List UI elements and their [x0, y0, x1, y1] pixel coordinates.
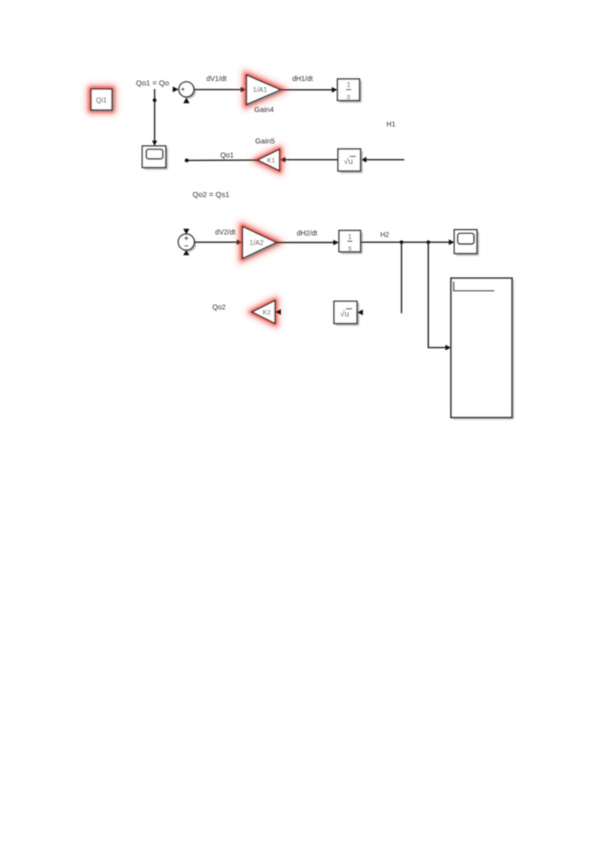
label dH1/dt: [292, 76, 313, 83]
block Qi1 (highlighted source block): [91, 89, 114, 112]
scope Scope2: [454, 230, 478, 256]
svg-text:Qo2 = Qs1: Qo2 = Qs1: [193, 190, 230, 199]
svg-text:1/A1: 1/A1: [253, 87, 268, 94]
scope Scope1: [142, 146, 167, 169]
wire Gain5 output to open end: [185, 159, 258, 163]
wire branch from junction 2 down and into tank: [428, 242, 451, 350]
gain K2 (highlighted, points left): [252, 301, 281, 324]
sum block Sum1: [173, 82, 196, 103]
svg-text:Qo1 = Qo: Qo1 = Qo: [136, 79, 169, 88]
label Gain4: [254, 105, 274, 114]
wire 1/A2 to Integrator2: [277, 240, 339, 246]
integrator block 1/s (second tank): [339, 231, 362, 254]
wire from node down to Scope1: [152, 89, 157, 146]
label Qo2 = Qs1: [193, 190, 230, 199]
wire Sum2 to Gain 1/A2: [194, 239, 242, 245]
svg-text:K1: K1: [267, 158, 275, 165]
node junction 1 on H2 wire: [400, 240, 404, 244]
svg-text:√u: √u: [340, 309, 350, 319]
sqrt block Sqrt1: [338, 149, 362, 173]
svg-text:Qo2: Qo2: [212, 304, 225, 311]
sqrt block Sqrt2: [334, 301, 363, 325]
label H1: [387, 121, 396, 128]
svg-text:s: s: [347, 92, 351, 101]
wire Integrator2 to Scope2: [361, 239, 455, 245]
label Qo2 (signal): [212, 304, 225, 311]
svg-text:Gain5: Gain5: [255, 137, 275, 146]
sum block Sum2: [178, 229, 196, 255]
svg-text:dH2/dt: dH2/dt: [297, 230, 318, 237]
integrator block 1/s (first tank): [338, 79, 362, 102]
label dH2/dt: [297, 230, 318, 237]
svg-text:1: 1: [347, 80, 351, 89]
svg-text:Qo1: Qo1: [220, 150, 234, 159]
wire stub into Sqrt1 from right: [361, 157, 404, 163]
label H2: [380, 232, 389, 239]
label Qo1 = Qo: [136, 79, 169, 88]
label dV1/dt: [206, 76, 226, 83]
tank block (animation rectangle): [451, 278, 514, 419]
node junction on Qo1 wire: [153, 98, 157, 102]
svg-text:1/A2: 1/A2: [249, 240, 264, 247]
svg-text:dH1/dt: dH1/dt: [292, 76, 313, 83]
wire branch down from junction 1 (open end): [401, 242, 403, 313]
label Gain5: [255, 137, 275, 146]
svg-text:√u: √u: [344, 156, 354, 166]
svg-text:dV1/dt: dV1/dt: [206, 76, 226, 83]
gain Gain5 (K1, highlighted, points left): [258, 149, 280, 170]
wire Sum1 to Gain4: [194, 87, 246, 93]
svg-text:1: 1: [348, 232, 352, 241]
gain Gain4 (1/A1, highlighted): [247, 75, 283, 106]
svg-text:H2: H2: [380, 232, 389, 239]
svg-text:H1: H1: [387, 121, 396, 128]
label Qo1 (signal): [220, 150, 234, 159]
svg-text:K2: K2: [263, 310, 271, 317]
svg-text:s: s: [348, 243, 352, 252]
svg-text:Qi1: Qi1: [96, 97, 107, 104]
node junction 2 on H2 wire: [427, 240, 431, 244]
wire Sqrt1 to Gain5: [280, 157, 338, 163]
label dV2/dt: [215, 230, 235, 237]
wire Gain4 to Integrator1: [281, 87, 338, 93]
svg-text:dV2/dt: dV2/dt: [215, 230, 235, 237]
gain 1/A2 (highlighted): [243, 227, 279, 261]
svg-text:Gain4: Gain4: [254, 105, 274, 114]
